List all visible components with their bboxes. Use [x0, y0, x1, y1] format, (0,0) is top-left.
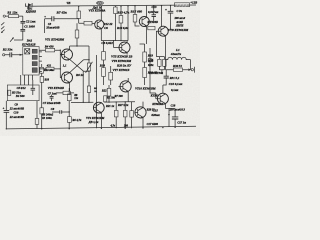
- inductor Dr1 oval on rail: [96, 1, 103, 5]
- wire scan grain overlay: [0, 0, 1, 1]
- wire VT11 leads: [135, 102, 143, 129]
- wire C16 vertical: [163, 70, 166, 93]
- wire VT3 collector: [100, 6, 102, 20]
- resistor R17: [40, 67, 44, 73]
- wire VT9 leads: [93, 102, 101, 128]
- wire VT12 leads: [156, 93, 166, 109]
- transistor VT9: [93, 102, 104, 113]
- wire C13 vertical: [153, 6, 155, 22]
- wire R34 column: [36, 101, 38, 129]
- resistor R14: [102, 68, 106, 77]
- wire mid-bottom horizontal: [71, 101, 135, 104]
- resistor R5 horizontal: [63, 91, 70, 95]
- node input terminal XS1: [3, 15, 5, 17]
- capacitor C12 beside R26: [163, 59, 166, 66]
- internal block pins DA1: [32, 49, 37, 53]
- wire R17 column: [41, 64, 43, 129]
- resistor R16 dark: [109, 72, 113, 80]
- pin stubs DA1 bottom: [21, 75, 33, 85]
- capacitor C7: [50, 96, 54, 98]
- resistor R26: [158, 59, 161, 66]
- wire R19 vertical: [144, 44, 146, 68]
- transistor VT4: [139, 17, 149, 27]
- wire R15 vertical: [135, 6, 140, 26]
- wire VT5 emitter: [126, 52, 128, 54]
- resistor R18 horizontal: [148, 26, 155, 29]
- wire C18 vertical: [166, 109, 176, 128]
- wire R1 input line: [5, 15, 22, 17]
- antenna left mark: [1, 30, 4, 33]
- capacitor C18 electrolytic: [172, 117, 178, 119]
- capacitor C10 electrolytic left: [4, 110, 10, 112]
- capacitor C11: [46, 67, 54, 70]
- resistor R21: [114, 110, 118, 117]
- wire R23 down: [124, 102, 126, 128]
- resistor R6b: [67, 117, 71, 123]
- resistor R8: [75, 30, 79, 38]
- transistor VT12: [157, 93, 168, 104]
- resistor R30: [174, 68, 183, 71]
- resistor R33: [40, 108, 44, 114]
- transistor emitter arrowheads: [68, 25, 166, 118]
- resistor R3 inside box: [8, 90, 11, 95]
- wire center vertical: [88, 46, 90, 102]
- wire right vertical to rail: [168, 109, 170, 128]
- wire VT2 emitter down: [69, 82, 71, 91]
- wire R8b vertical: [68, 88, 70, 117]
- wire VT5 base: [114, 41, 122, 48]
- wire R7 vertical: [78, 7, 80, 24]
- wire R6b down: [68, 122, 70, 128]
- wire VT4 collector: [146, 6, 148, 18]
- capacitor C4: [52, 16, 54, 21]
- wire bottom common rail: [6, 126, 196, 129]
- transistor VT11: [135, 107, 146, 118]
- antenna WA1 arrow: [10, 38, 14, 42]
- resistor R25: [130, 111, 134, 118]
- resistor R9 horizontal: [84, 21, 92, 25]
- wire VT8 emitter down: [165, 36, 167, 60]
- transistor VT8: [158, 26, 168, 36]
- antenna feeder marks: [1, 22, 4, 29]
- wire R4 to VT1: [39, 49, 60, 51]
- inductor L1 coil: [166, 57, 191, 59]
- resistor R9b: [87, 86, 90, 92]
- mixer symbol inside DA1: [25, 49, 30, 54]
- wire VT3 emitter: [100, 28, 102, 40]
- wire output line: [166, 69, 189, 71]
- wire L1 to output: [166, 60, 191, 70]
- wire VT4 emitter: [146, 26, 148, 44]
- wire R26 C12 leads: [156, 57, 164, 74]
- wire C14 vertical: [170, 5, 172, 30]
- output jack bar: [194, 67, 196, 73]
- capacitor C8b: [60, 110, 62, 114]
- wire R12 R14 vertical: [103, 41, 105, 85]
- wire C11 vertical: [39, 68, 60, 70]
- resistor R20b: [104, 96, 107, 102]
- resistor R34: [35, 119, 39, 125]
- wire top +12V rail: [25, 5, 196, 6]
- wire R22 vertical: [108, 85, 110, 102]
- transistor VT5: [119, 42, 130, 53]
- wire input line to DA1: [5, 54, 23, 56]
- wire R21 down: [115, 102, 117, 128]
- resistor R7: [77, 11, 81, 19]
- wire VT5 collector: [126, 6, 129, 43]
- transistor VT2: [62, 72, 73, 83]
- wire VT3 emitter bus: [96, 55, 98, 128]
- IC DA1 box: [23, 47, 39, 75]
- transistor VT1: [62, 49, 73, 60]
- value label 1,1k: [114, 7, 117, 14]
- capacitor C6 inside box: [31, 88, 35, 90]
- wire feedback vertical: [150, 48, 156, 93]
- junction dots: [28, 6, 29, 7]
- resistor R19: [143, 52, 147, 62]
- wire VT1 collector up: [62, 46, 70, 55]
- wire base bus vertical: [60, 50, 63, 77]
- output arrow: [188, 68, 191, 71]
- trimmer R10: [87, 63, 90, 71]
- node output terminal: [191, 69, 193, 71]
- wire mid horizontal: [101, 40, 128, 42]
- capacitor C16: [164, 76, 169, 78]
- capacitor C14 electrolytic: [168, 11, 174, 13]
- wire from rail to C3: [14, 6, 29, 40]
- wire X lower vertical: [82, 71, 84, 102]
- capacitor C3: [20, 21, 25, 31]
- resistor R1: [9, 15, 19, 18]
- node input terminal 2: [3, 54, 5, 56]
- transistor VT3: [95, 20, 104, 29]
- resistor R18b: [40, 77, 44, 83]
- diode VD1: [28, 3, 32, 6]
- wire VT8 collector to rail: [161, 6, 163, 27]
- pin stubs DA1 right: [39, 52, 42, 72]
- resistor R24: [143, 68, 147, 78]
- wire cross coupling X: [70, 59, 89, 72]
- wire R5 leads: [56, 92, 74, 94]
- resistor R22: [107, 88, 111, 96]
- wire VT6 emitter down: [119, 78, 129, 102]
- wire R24 down: [140, 44, 145, 85]
- resistor R8b: [67, 94, 71, 101]
- wire R13 vertical: [120, 6, 122, 40]
- resistor R15: [133, 15, 137, 23]
- wire R9 leads: [79, 22, 95, 24]
- resistor R4: [46, 48, 55, 52]
- resistor R23: [123, 110, 127, 117]
- capacitor C5 input: [10, 52, 12, 57]
- capacitor C13: [152, 15, 157, 17]
- wire R16 vertical: [110, 66, 112, 85]
- transistor VT6 circle: [120, 81, 131, 92]
- inductor L2 choke hatched: [175, 3, 190, 7]
- shield box A1: [7, 85, 39, 101]
- wire VT8 base: [156, 31, 161, 56]
- resistor R13: [119, 16, 123, 24]
- wire R8 vertical: [70, 23, 89, 46]
- resistor R12: [102, 52, 106, 61]
- wire R25: [131, 102, 133, 128]
- wire C4 branch: [45, 19, 79, 33]
- node R4 out: [60, 50, 61, 51]
